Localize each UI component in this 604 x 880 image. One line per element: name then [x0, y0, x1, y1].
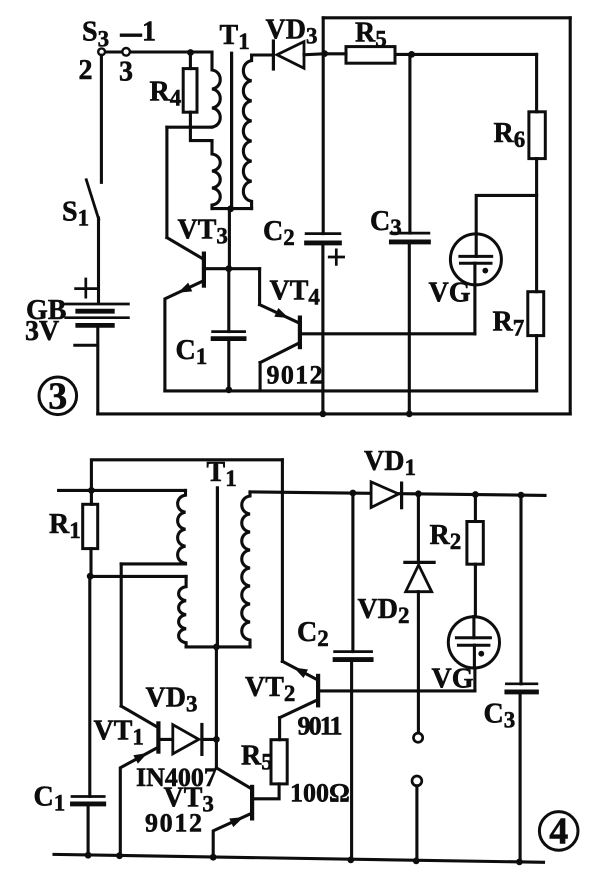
wire S1 to battery positive	[97, 218, 100, 303]
junction C3 bottom circuit 4	[516, 859, 523, 866]
transformer T1 primary winding 1	[212, 54, 220, 127]
battery minus sign	[75, 344, 98, 347]
wire VG top branch	[476, 195, 536, 234]
svg-text:3: 3	[48, 376, 67, 418]
label C2	[263, 216, 295, 250]
label VD1	[364, 446, 416, 480]
junction C2 bottom circuit 4	[347, 857, 354, 864]
wire winding1 bottom to VT1 collector	[120, 564, 123, 706]
svg-text:2: 2	[79, 55, 93, 86]
label C1 circuit 4	[34, 782, 66, 816]
transformer T1 circuit4 core	[216, 488, 219, 646]
diode VD3 circuit 4	[160, 725, 217, 755]
label 3V	[25, 316, 59, 347]
label C3	[370, 206, 402, 240]
label pin 2	[79, 55, 93, 86]
label R2	[430, 520, 462, 554]
battery GB plates	[66, 304, 129, 325]
wire emitter rail circuit 3	[165, 389, 537, 392]
label VT2	[245, 672, 295, 706]
label T1 circuit 4	[207, 457, 237, 491]
circled figure number 3	[39, 376, 77, 418]
switch S1 blade	[86, 180, 98, 219]
label C2 circuit 4	[297, 617, 329, 651]
wire transformer bottom circuit 4	[186, 645, 250, 648]
svg-text:3V: 3V	[25, 316, 59, 347]
junction transformer bottom circuit 4	[213, 644, 220, 651]
terminal upper	[414, 733, 423, 742]
transformer T1 secondary winding	[243, 55, 251, 209]
label S3-1	[82, 17, 156, 52]
wire frame drop to VD3 node	[322, 18, 325, 54]
neon lamp VG circuit 4	[448, 617, 499, 691]
junction transformer bottom	[227, 205, 234, 212]
junction C1 bottom	[225, 387, 232, 394]
label R5 circuit 4	[241, 741, 273, 775]
wire VT2 collector to R5	[278, 718, 281, 740]
circled figure number 4	[539, 811, 578, 853]
transformer T1 circuit4 primary winding 1	[178, 490, 186, 564]
wire top row circuit 3	[105, 50, 212, 53]
label 9012 circuit 4	[145, 809, 202, 838]
wire winding 1 bottom	[121, 562, 185, 565]
svg-text:9012: 9012	[145, 809, 202, 838]
capacitor C3	[391, 54, 429, 414]
junction terminal wire at rail	[413, 858, 420, 865]
wire top-left stub to winding 1	[59, 489, 186, 492]
wire bottom rail circuit 4	[54, 854, 544, 862]
label R7	[493, 306, 525, 340]
junction VD2 top node	[415, 490, 422, 497]
label pin 3	[119, 57, 133, 88]
resistor R1	[83, 490, 98, 576]
junction R1 top node	[88, 487, 95, 494]
svg-text:VG: VG	[432, 664, 474, 695]
switch S3-1 contact 3	[122, 48, 130, 56]
junction C3 bottom	[406, 411, 413, 418]
label GB	[26, 295, 66, 326]
dash of label S3-1	[122, 34, 141, 37]
label 9012	[267, 361, 323, 390]
battery plus sign	[76, 279, 98, 297]
transistor VT3	[165, 127, 260, 391]
resistor R4	[183, 54, 197, 127]
wire tap to winding 2	[190, 127, 212, 140]
junction VT1 emitter at rail	[116, 852, 123, 859]
junction R2 top node	[472, 491, 479, 498]
wire node B horizontal	[167, 126, 212, 129]
wire bottom rail circuit 3	[98, 412, 570, 415]
diode VD3	[252, 41, 325, 69]
wire transformer junction down to VT3 collector	[215, 647, 218, 768]
wire top frame circuit 3	[323, 16, 570, 19]
wire VT2 emitter drop	[281, 460, 284, 662]
transistor VT1	[120, 706, 158, 856]
wire from contact 2 down to S1	[100, 55, 103, 182]
svg-text:9011: 9011	[298, 712, 343, 741]
wire VT4 base to VG bottom	[301, 332, 475, 335]
capacitor C2 circuit 4	[335, 493, 372, 860]
label R1	[49, 509, 81, 543]
resistor R6	[529, 54, 545, 291]
svg-text:4: 4	[549, 811, 568, 853]
label VT3	[178, 215, 228, 249]
label VG	[429, 278, 471, 309]
diode VD1	[371, 482, 402, 508]
label T1	[220, 20, 250, 54]
resistor R5 circuit 4	[254, 740, 288, 799]
junction VD3 cathode node	[321, 50, 328, 57]
label 9011	[298, 712, 343, 741]
junction VT3 emitter at rail	[210, 854, 217, 861]
transistor VT4	[260, 269, 300, 391]
neon lamp VG	[450, 234, 501, 334]
junction node top of R4	[187, 49, 194, 56]
transistor VT3 circuit 4	[213, 768, 252, 857]
label S1	[62, 197, 89, 231]
label VD2	[358, 594, 410, 628]
svg-text:9012: 9012	[267, 361, 323, 390]
capacitor C2	[306, 54, 340, 414]
svg-text:VG: VG	[429, 278, 471, 309]
svg-text:100Ω: 100Ω	[290, 779, 350, 808]
svg-text:IN4007: IN4007	[136, 763, 217, 792]
transformer T1 circuit4 primary winding 2	[179, 576, 187, 647]
resistor R2	[467, 495, 483, 617]
capacitor C1 circuit 4	[72, 576, 104, 855]
switch S3-1 contact 2	[98, 48, 105, 55]
junction C2 top node	[350, 490, 357, 497]
wire transformer to VT3 base node	[228, 209, 231, 269]
label VT4	[270, 276, 321, 310]
label C3 circuit 4	[484, 698, 516, 732]
label R4	[150, 77, 182, 111]
svg-text:3: 3	[119, 57, 133, 88]
label VD3	[266, 15, 318, 49]
label R6	[494, 118, 526, 152]
junction R1 bottom node	[87, 573, 94, 580]
label R5	[355, 17, 387, 51]
diode VD2	[405, 494, 434, 733]
capacitor C3 circuit 4	[506, 495, 537, 862]
wire transformer bottom	[212, 207, 252, 210]
wire tap to winding 2 circuit 4	[90, 575, 186, 578]
label IN4007	[136, 763, 217, 792]
transistor VT2	[280, 661, 475, 717]
capacitor C1	[213, 269, 245, 390]
transformer T1 circuit4 secondary winding	[242, 492, 250, 647]
label VD3 circuit 4	[146, 683, 198, 717]
label VT3 circuit 4	[164, 783, 214, 817]
junction C2 bottom	[320, 411, 327, 418]
junction R5 right node	[408, 51, 415, 58]
label 100 ohm	[290, 779, 350, 808]
terminal lower	[412, 776, 422, 861]
label C1	[176, 335, 208, 369]
junction VT3 base node	[225, 265, 232, 272]
C2 plus sign	[329, 250, 343, 265]
junction C1 bottom circuit 4	[85, 852, 92, 859]
label VT1	[94, 715, 144, 749]
junction VD3 cathode node circuit 4	[213, 736, 220, 743]
transformer T1 core	[230, 53, 233, 207]
label VG circuit 4	[432, 664, 474, 695]
resistor R5	[325, 47, 537, 64]
svg-text:1: 1	[142, 17, 156, 48]
wire battery negative down	[96, 327, 99, 414]
wire top frame circuit 4	[91, 460, 282, 491]
resistor R7	[528, 292, 544, 391]
wire main output row circuit 4	[250, 492, 545, 496]
wire right frame circuit 3	[569, 18, 572, 414]
transformer T1 primary winding 2	[212, 141, 220, 209]
junction C3 top node	[518, 492, 525, 499]
